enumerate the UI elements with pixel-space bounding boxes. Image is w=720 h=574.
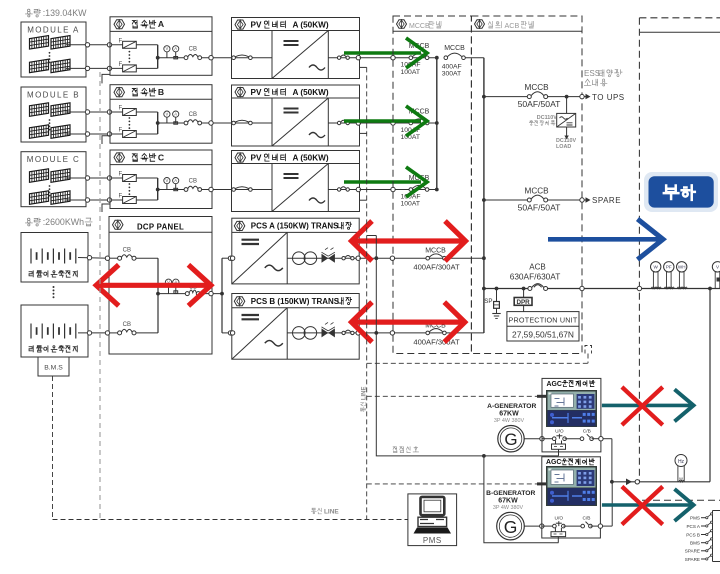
- svg-text:50AF/50AT: 50AF/50AT: [518, 99, 562, 109]
- voltmeter V 접속반B: [164, 111, 170, 117]
- svg-text:100AT: 100AT: [401, 201, 421, 208]
- PCS B transformer: [293, 327, 306, 340]
- fuse F2 접속반C: [123, 197, 137, 204]
- junction box B dc bus: [136, 111, 157, 113]
- svg-text:PMS: PMS: [690, 516, 700, 521]
- ammeter A 접속반C: [173, 178, 179, 184]
- inverter B output contact: [328, 122, 359, 124]
- svg-text:A: A: [174, 178, 177, 183]
- voltmeter V 접속반C: [164, 178, 170, 184]
- node ACB panel edge: [580, 286, 584, 290]
- DCP internal bus: [157, 258, 159, 333]
- junction dot bus row C: [435, 188, 439, 192]
- voltmeter V 접속반A: [164, 46, 170, 52]
- fuse F2 접속반A: [123, 65, 137, 72]
- svg-text:400AF/300AT: 400AF/300AT: [413, 263, 460, 272]
- AGC panel A box: [542, 378, 601, 452]
- stub 접속반C comm: [102, 204, 110, 212]
- svg-text:MODULE B: MODULE B: [27, 91, 80, 100]
- svg-text:BMS: BMS: [690, 541, 700, 546]
- PCS B static switch: [322, 328, 329, 337]
- comm stub inverter C: [360, 199, 367, 201]
- generator output line: [612, 481, 710, 483]
- fuse F2 접속반B: [123, 131, 137, 138]
- svg-text:27,59,50/51,67N: 27,59,50/51,67N: [512, 329, 574, 339]
- svg-text:PCS A (150KW) TRANS: PCS A (150KW) TRANS: [251, 222, 339, 231]
- comm stub inverter A: [360, 66, 367, 68]
- svg-text:LINE: LINE: [324, 508, 339, 515]
- svg-text:100AT: 100AT: [401, 134, 421, 141]
- wire charger to load: [566, 127, 568, 136]
- stub 접속반B comm: [102, 136, 110, 144]
- meter PF on load bus: [664, 262, 674, 272]
- wire module A string1: [66, 44, 123, 46]
- wire battery1 to DCP: [78, 257, 109, 260]
- label ESS태양광 소내용: [599, 70, 604, 77]
- svg-text:F: F: [119, 62, 123, 68]
- PMS computer icon: [421, 497, 445, 515]
- PV module box MODULE B: [21, 87, 86, 142]
- MCCB 400AF/300AT PCS B: [426, 331, 430, 335]
- contact signal line 접점신호: [376, 236, 558, 456]
- comm dashed to ACB panel: [367, 362, 588, 364]
- ammeter A 접속반A: [173, 46, 179, 52]
- dashed line bottom right: [642, 499, 720, 501]
- wire DPR to protection unit: [523, 305, 525, 311]
- red X gen B: [622, 487, 663, 525]
- fuse F1 접속반C: [123, 175, 137, 182]
- green arrow PV A: [344, 51, 421, 55]
- load panel dashed edge: [638, 18, 640, 482]
- junction dot bus row A: [435, 56, 439, 60]
- frequency meter Hz: [675, 455, 687, 467]
- fuse F1 접속반A: [123, 41, 137, 48]
- wire bus to PCS B: [222, 332, 232, 334]
- svg-text:CB: CB: [123, 248, 131, 254]
- wire AGC B out: [602, 525, 612, 527]
- teal arrow gen B: [602, 503, 691, 507]
- svg-text:V: V: [166, 178, 169, 183]
- svg-text:3P 4W 380V: 3P 4W 380V: [493, 505, 524, 511]
- svg-text:MCCB: MCCB: [525, 186, 550, 195]
- svg-text:V: V: [166, 46, 169, 51]
- svg-text:DCP PANEL: DCP PANEL: [137, 222, 184, 231]
- MCCB 100AF/100AT row C: [409, 188, 413, 192]
- wire bus to PCS A: [222, 257, 232, 259]
- svg-text:B: B: [158, 87, 164, 97]
- comm dashed to AGC A: [367, 395, 546, 397]
- PCS B ac wire: [287, 332, 359, 334]
- svg-text:AGC: AGC: [546, 459, 561, 466]
- DCP panel box: [109, 217, 212, 355]
- PV inverter U-B PV 인버터 B 50KW: [232, 85, 360, 146]
- MCCB 400AF/300AT PCS A: [426, 256, 430, 260]
- ACB panel main bus: [483, 58, 485, 333]
- AGC A aux device: [555, 441, 557, 445]
- dots between fuses C: [129, 183, 131, 185]
- dots between batteries: [53, 286, 55, 288]
- junction box C dc bus: [136, 177, 157, 179]
- svg-text:MODULE A: MODULE A: [27, 26, 80, 35]
- label ESS capacity 2600KWh: [28, 218, 30, 220]
- svg-text:CB: CB: [123, 322, 131, 328]
- PV module box MODULE A: [21, 22, 86, 77]
- wire genA to AGC: [524, 438, 542, 440]
- wire MCCB400 to ACB bus: [465, 57, 484, 59]
- AGC B C/B contact: [563, 525, 582, 527]
- svg-text:LINE: LINE: [361, 387, 367, 401]
- AGC A C/B contact: [565, 438, 582, 440]
- svg-text:F: F: [119, 172, 123, 178]
- comm dashed long vertical: [99, 72, 101, 520]
- junction dot ACB row: [482, 287, 486, 291]
- wire ACB row: [484, 288, 530, 290]
- wire module C string2: [66, 199, 123, 201]
- ACB panel title 실외 ACB 판넬: [488, 21, 492, 28]
- PCS A box PCS A 150KW TRANS내장: [232, 218, 359, 284]
- meter V at edge: [712, 262, 720, 272]
- junction dot bus row B: [435, 121, 439, 125]
- inverter A output contact: [328, 57, 359, 59]
- stub 접속반A comm: [102, 74, 110, 83]
- svg-text:50AF/50AT: 50AF/50AT: [518, 202, 562, 212]
- protection unit box: [507, 312, 579, 341]
- svg-text:ACB: ACB: [505, 21, 520, 30]
- svg-text:SPARE: SPARE: [685, 549, 700, 554]
- junction box A dc bus: [136, 44, 157, 46]
- MCCB panel header line: [393, 30, 471, 32]
- battery box 1 리튬이온축전지: [21, 233, 88, 283]
- wire inverter A to MCCB panel: [360, 57, 437, 59]
- red double arrow battery-DCP: [99, 283, 209, 288]
- svg-text:PROTECTION UNIT: PROTECTION UNIT: [509, 315, 578, 324]
- svg-text:A (50KW): A (50KW): [292, 153, 328, 162]
- red double arrow PCS B: [354, 320, 462, 325]
- svg-text:F: F: [119, 194, 123, 200]
- comm dashed from BMS: [52, 376, 54, 520]
- svg-text:ESS: ESS: [584, 69, 601, 78]
- PCS A ac wire: [287, 257, 359, 259]
- svg-text:F: F: [119, 38, 123, 44]
- surge protector SP with ground: [495, 287, 499, 291]
- svg-text:G: G: [504, 430, 517, 449]
- junction box 접속반B: [110, 85, 212, 144]
- MCCB 400AF/300AT main: [444, 56, 448, 60]
- svg-text:WH: WH: [678, 265, 686, 270]
- red X gen A: [622, 387, 663, 425]
- AGC B aux device: [554, 528, 556, 532]
- comm jog to signal line: [367, 235, 377, 237]
- panel ACB dashed box: [471, 16, 582, 354]
- ACB panel logo: [475, 20, 485, 29]
- svg-text:MCCB: MCCB: [525, 83, 550, 92]
- breaker CB 접속반B output: [158, 122, 186, 124]
- AGC B controller device: [546, 466, 597, 506]
- wire inverter C to MCCB panel: [360, 189, 437, 191]
- wire inverter B to MCCB panel: [360, 122, 437, 124]
- svg-text:PF: PF: [666, 265, 672, 270]
- svg-text:A: A: [174, 112, 177, 117]
- MCCB panel logo: [397, 20, 407, 29]
- AGC panel B box: [542, 457, 601, 538]
- DCP ammeter: [173, 279, 179, 285]
- svg-text:U/O: U/O: [555, 428, 564, 434]
- inverter A input contact: [232, 57, 273, 59]
- load panel header line: [640, 31, 720, 33]
- svg-text:400AF/300AT: 400AF/300AT: [413, 337, 460, 346]
- terminal block box: [712, 511, 714, 562]
- wire PCS B to ACB bus: [359, 332, 484, 334]
- PCS A transformer: [293, 252, 306, 265]
- svg-text:67KW: 67KW: [498, 497, 518, 504]
- 부하 load box: [644, 172, 718, 212]
- load bus node: [637, 286, 641, 290]
- svg-text:A: A: [174, 46, 177, 51]
- MCCB 50AF/50AT row 2 to SPARE: [482, 198, 486, 202]
- MCCB panel bus: [436, 58, 438, 190]
- svg-text:PMS: PMS: [423, 536, 442, 545]
- svg-text:F: F: [119, 106, 123, 112]
- svg-text:C/B: C/B: [583, 428, 591, 434]
- wire module B string1: [66, 111, 123, 113]
- svg-text:MCCB: MCCB: [409, 23, 430, 30]
- breaker CB 접속반A output: [158, 57, 186, 59]
- svg-text:B-GENERATOR: B-GENERATOR: [486, 490, 535, 497]
- MCCB 50AF/50AT row 1 to TO UPS: [482, 95, 486, 99]
- svg-text:400AF: 400AF: [442, 63, 462, 70]
- breaker CB 접속반C output: [158, 189, 186, 191]
- PCS B output contact: [342, 331, 345, 334]
- junction dot row A on ACB bus: [482, 256, 486, 260]
- svg-text:A-GENERATOR: A-GENERATOR: [487, 403, 536, 410]
- junction dot DCP out: [220, 292, 224, 296]
- AGC A controller device: [546, 390, 597, 427]
- label 통신LINE vertical: [361, 387, 368, 412]
- junction box 접속반A: [110, 17, 212, 76]
- ACB 630AF/630AT breaker: [528, 287, 532, 291]
- svg-text:B.M.S: B.M.S: [44, 365, 63, 372]
- svg-text:C: C: [158, 152, 164, 162]
- inverter C output contact: [328, 189, 359, 191]
- svg-text:PCS A: PCS A: [686, 524, 700, 529]
- svg-text:PV: PV: [251, 20, 262, 29]
- PV inverter U-A PV 인버터 A 50KW: [232, 18, 360, 79]
- svg-text:DPR: DPR: [516, 299, 530, 306]
- DC110V charger converter: [565, 95, 569, 99]
- green arrow PV B: [344, 119, 421, 123]
- svg-text:ACB: ACB: [529, 263, 545, 272]
- svg-text:SPARE: SPARE: [685, 557, 700, 562]
- svg-text:PV: PV: [251, 153, 262, 162]
- comm stub inverter B: [360, 132, 367, 134]
- PMS box: [408, 494, 457, 546]
- wire module A string2: [66, 67, 123, 69]
- MCCB 100AF/100AT row A: [409, 56, 413, 60]
- svg-text:LOAD: LOAD: [556, 144, 571, 150]
- svg-text:A: A: [158, 19, 164, 29]
- wire module C string1: [66, 177, 123, 179]
- green arrow PV C: [344, 180, 421, 184]
- meter WH on load bus: [677, 262, 687, 272]
- wire AGC A out: [603, 438, 612, 440]
- generator G A: [498, 426, 524, 452]
- svg-text:SP: SP: [484, 298, 492, 305]
- svg-text:A (50KW): A (50KW): [292, 88, 328, 97]
- svg-text:V: V: [166, 112, 169, 117]
- wire PCS A to ACB bus: [359, 257, 484, 259]
- inverter B input contact: [232, 122, 273, 124]
- wire genB to AGC: [524, 525, 542, 527]
- PCS A static switch: [322, 254, 329, 263]
- fuse F1 접속반B: [123, 109, 137, 116]
- comm line vertical dashed 통신LINE: [366, 67, 368, 519]
- DCP voltmeter: [165, 279, 171, 285]
- battery box 2 리튬이온축전지: [21, 305, 88, 357]
- svg-text:630AF/630AT: 630AF/630AT: [510, 272, 561, 282]
- PCS input bus: [221, 258, 223, 333]
- dots between fuses B: [129, 117, 131, 119]
- panel MCCB 판넬 dashed box: [393, 16, 471, 354]
- svg-text:U/O: U/O: [555, 516, 564, 522]
- DCP output CB: [158, 293, 187, 295]
- svg-text:AGC: AGC: [546, 381, 561, 388]
- AGC B U/O contact: [542, 525, 555, 527]
- PCS B input node: [230, 331, 234, 335]
- wire module B string2: [66, 133, 123, 135]
- PCS A output contact: [342, 257, 345, 260]
- svg-text:PV: PV: [251, 88, 262, 97]
- inverter C input contact: [232, 189, 273, 191]
- svg-text:Hz: Hz: [678, 459, 685, 465]
- wire battery2 to DCP: [78, 332, 109, 334]
- svg-text:3P 4W 380V: 3P 4W 380V: [494, 418, 525, 424]
- meter W on load bus: [651, 262, 661, 272]
- PCS B box PCS B 150KW TRANS내장: [232, 294, 359, 360]
- svg-text::139.04KW: :139.04KW: [43, 8, 87, 18]
- PV module box MODULE C: [21, 152, 86, 207]
- DPR relay box: [522, 287, 526, 291]
- svg-text:PCS B: PCS B: [686, 532, 700, 537]
- svg-text:W: W: [654, 265, 659, 270]
- svg-text:DC110V: DC110V: [537, 115, 557, 121]
- dots between fuses A: [129, 51, 131, 53]
- PCS A input node: [230, 256, 234, 260]
- svg-text:PCS B (150KW) TRANS: PCS B (150KW) TRANS: [251, 297, 340, 306]
- BMS box B.M.S: [38, 357, 69, 376]
- svg-text:TO UPS: TO UPS: [592, 93, 625, 102]
- svg-text:CB: CB: [189, 179, 197, 185]
- label 접점신호: [393, 447, 397, 453]
- svg-text:300AT: 300AT: [442, 71, 462, 78]
- svg-text:100AT: 100AT: [401, 69, 421, 76]
- generator G B: [497, 512, 525, 540]
- AGC A U/O contact: [542, 438, 554, 440]
- comm dashed to AGC B: [367, 483, 546, 485]
- teal arrow gen A: [602, 404, 691, 408]
- svg-text:W: W: [679, 476, 683, 481]
- MCCB 100AF/100AT row B: [409, 121, 413, 125]
- svg-text:MODULE C: MODULE C: [27, 155, 80, 164]
- blue arrow to load: [548, 237, 659, 242]
- svg-text::2600KWh: :2600KWh: [43, 217, 84, 227]
- junction dot bus right: [708, 287, 712, 291]
- svg-text:G: G: [504, 517, 518, 537]
- svg-text:CB: CB: [189, 112, 197, 118]
- svg-text:C/B: C/B: [583, 516, 591, 522]
- junction box 접속반C: [110, 150, 212, 209]
- load vertical wire: [709, 289, 711, 482]
- svg-text:F: F: [119, 128, 123, 134]
- svg-text:MCCB: MCCB: [425, 248, 446, 255]
- PV inverter U-C PV 인버터 C 50KW: [232, 151, 360, 212]
- svg-text:67KW: 67KW: [499, 410, 519, 417]
- svg-text:MCCB: MCCB: [444, 45, 465, 52]
- ACB panel header line: [471, 30, 582, 32]
- label PV capacity 139.04KW: [28, 9, 30, 11]
- svg-text:SPARE: SPARE: [592, 196, 621, 205]
- ammeter A 접속반B: [173, 111, 179, 117]
- svg-text:A (50KW): A (50KW): [292, 20, 328, 29]
- red double arrow PCS A: [354, 238, 463, 243]
- svg-text:CB: CB: [189, 47, 197, 53]
- label 통신LINE horizontal: [313, 512, 315, 514]
